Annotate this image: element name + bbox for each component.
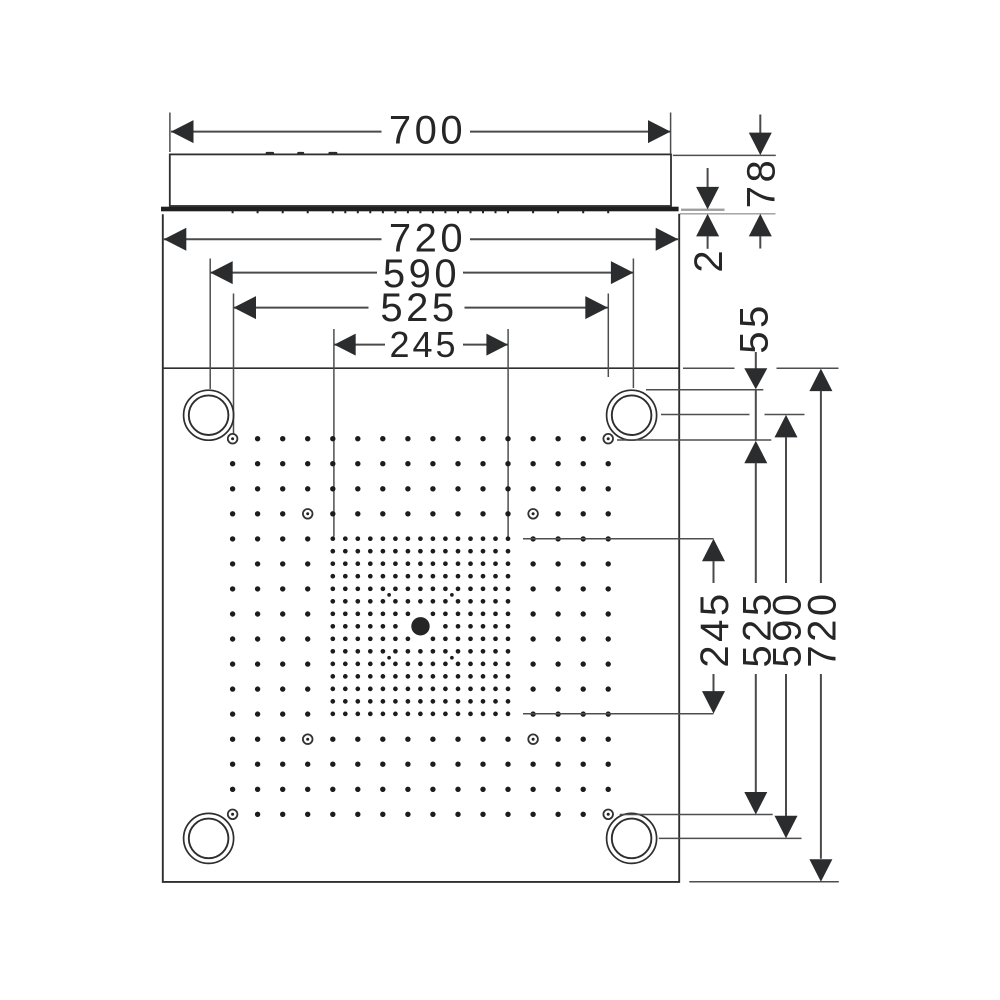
dimension 525 horizontal — [234, 286, 609, 434]
svg-text:78: 78 — [739, 157, 783, 209]
svg-text:245: 245 — [693, 590, 737, 667]
extension of plate bottom edge to the right (720 lower ref) — [689, 881, 839, 883]
dimension 245 vertical — [693, 539, 737, 714]
svg-text:700: 700 — [389, 109, 466, 153]
screw hole inner TR — [528, 509, 538, 519]
dimension 78 vertical — [739, 115, 783, 249]
screw hole TR — [603, 434, 613, 444]
dimension 55 vertical — [732, 302, 776, 389]
callout line circle centre top (590 upper ref) — [661, 414, 805, 416]
spray nozzle ticks under base plate — [233, 211, 609, 213]
screw hole BL — [228, 810, 238, 820]
screw hole inner TL — [303, 509, 313, 519]
svg-text:245: 245 — [389, 324, 458, 365]
dimension 2 vertical — [687, 168, 731, 273]
corner circle TR — [607, 390, 657, 440]
callout line screw centre bottom (525 lower ref) — [620, 814, 773, 816]
callout line dense grid bottom (245 lower ref) — [523, 713, 714, 715]
dimension 590 horizontal — [210, 252, 633, 389]
screw hole BR — [603, 810, 613, 820]
dimension 720 vertical — [800, 369, 844, 882]
dimension 590 vertical — [766, 415, 810, 838]
screw hole TL — [228, 434, 238, 444]
screw hole inner BR — [528, 734, 538, 744]
svg-text:55: 55 — [732, 302, 776, 354]
side view base plate — [161, 207, 679, 212]
extension of plate square top edge to the right — [683, 367, 839, 369]
dimension 700 (side view width) — [170, 109, 671, 155]
plate square top edge — [163, 367, 679, 369]
corner circle BR — [607, 813, 657, 863]
grey reference line (2mm lip bottom) — [680, 213, 776, 215]
screw hole inner BL — [303, 734, 313, 744]
four small diagonal nozzles around centre — [387, 593, 454, 660]
dimension 720 horizontal — [164, 217, 678, 261]
callout line circle top (55 lower ref) — [646, 389, 763, 391]
dimension 245 horizontal — [334, 324, 508, 537]
extension of side body top edge — [673, 154, 776, 156]
dimension 525 vertical — [735, 391, 779, 815]
side view body — [170, 154, 671, 206]
centre outlet dot — [411, 617, 429, 635]
outer nozzle dot grid 25mm pitch — [233, 439, 609, 815]
grey lip bar right of base plate — [681, 209, 725, 211]
callout line dense grid top (245 upper ref) — [523, 538, 714, 540]
side view top buttons — [266, 152, 338, 155]
corner circle TL — [184, 390, 234, 440]
corner circle BL — [184, 813, 234, 863]
dense nozzle dot grid 12.5mm pitch — [333, 539, 508, 714]
callout line circle centre bottom (590 lower ref) — [659, 837, 802, 839]
plan view plate outline — [163, 214, 679, 882]
callout line screw centre top (525 upper ref) — [617, 439, 771, 441]
svg-text:720: 720 — [800, 590, 844, 667]
svg-text:2: 2 — [687, 247, 731, 273]
